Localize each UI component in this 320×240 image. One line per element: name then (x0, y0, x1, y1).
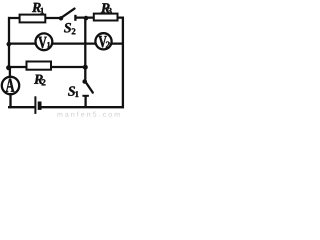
switch S2 pivot dot (59, 16, 63, 20)
switch S1 blade (86, 82, 93, 93)
wire left rail (8, 17, 10, 69)
wire left rail stub above ammeter (9, 67, 11, 78)
wire right rail (122, 17, 124, 109)
resistor R3 (94, 14, 118, 21)
label S2 (64, 23, 75, 34)
label R3 (101, 3, 112, 14)
wire voltmeter row (9, 42, 123, 44)
wire left rail below ammeter (9, 95, 11, 109)
wire top-right segment (76, 16, 125, 18)
label R2 (34, 75, 45, 86)
node dot left rail / voltmeter row (7, 42, 12, 47)
node dot middle vertical / R2 row (83, 65, 88, 70)
wire bottom-left segment (8, 106, 35, 108)
node dot left rail / R2 row (6, 65, 11, 70)
wire R2 row (9, 66, 86, 68)
voltmeter V2 (95, 33, 111, 49)
watermark (57, 112, 119, 117)
battery long plate (34, 96, 36, 114)
switch S1 bottom contact bar (82, 95, 89, 97)
label R1 (32, 3, 44, 14)
resistor R2 (27, 62, 52, 70)
ammeter A (2, 77, 19, 94)
switch S2 blade (62, 9, 75, 18)
wire middle vertical (84, 18, 86, 80)
resistor R1 (20, 15, 46, 23)
switch S2 right contact (74, 15, 76, 21)
battery short thick plate (38, 102, 42, 110)
voltmeter V1 (36, 33, 53, 50)
wire bottom-right segment (41, 106, 124, 108)
label S1 (68, 86, 78, 97)
switch S1 pivot dot (82, 79, 87, 84)
node junction dot of R3 branch on top wire (84, 16, 89, 21)
switch S1 bottom lead (84, 96, 86, 108)
wire top-left segment (8, 17, 61, 19)
